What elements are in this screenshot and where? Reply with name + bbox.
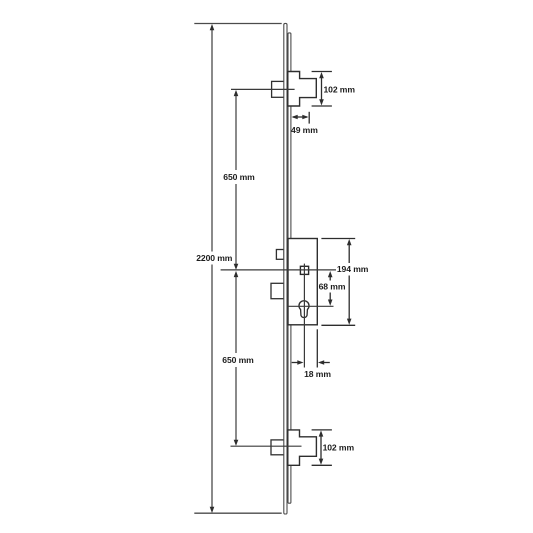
dimension 68 mm line bbox=[329, 276, 331, 281]
dimension 18 mm left arrow bbox=[292, 362, 301, 364]
dimension 102 mm top ticks bbox=[312, 71, 332, 73]
dimension 49 mm tick bbox=[308, 112, 310, 124]
svg-text:102 mm: 102 mm bbox=[323, 442, 355, 452]
dimension 102 mm bottom ticks bbox=[312, 429, 332, 431]
svg-text:68 mm: 68 mm bbox=[319, 282, 346, 292]
bottom extension line bbox=[194, 512, 281, 514]
main center line bbox=[221, 269, 336, 271]
top latch body (mount + bolt union) bbox=[288, 72, 317, 107]
faceplate front bar bbox=[284, 23, 287, 514]
spindle square bbox=[300, 266, 308, 274]
dimension 102 mm bottom line bbox=[320, 435, 322, 461]
dimension 650 mm lower bottom arrow bbox=[234, 440, 239, 446]
dimension 102 mm bottom arrows bbox=[319, 430, 324, 436]
svg-text:650 mm: 650 mm bbox=[222, 355, 254, 365]
dimension 68 mm arrows bbox=[328, 271, 333, 277]
bottom keeper box bbox=[271, 440, 285, 455]
dimension 18 mm right arrow bbox=[320, 362, 330, 364]
dimension 650 mm upper line bbox=[235, 96, 237, 171]
dimension 650 mm lower top arrow bbox=[234, 271, 239, 277]
faceplate back bar bbox=[288, 33, 291, 503]
top keeper box bbox=[272, 81, 285, 97]
upper small left box bbox=[276, 250, 284, 260]
svg-text:18 mm: 18 mm bbox=[304, 369, 331, 379]
dimension 102 mm top arrows bbox=[319, 72, 324, 78]
svg-text:194 mm: 194 mm bbox=[337, 264, 369, 274]
dimension 194 mm line bbox=[348, 244, 350, 263]
bottom latch body (mount + bolt union) bbox=[288, 430, 317, 465]
dimension 49 mm arrow bbox=[293, 116, 307, 118]
top latch center line bbox=[231, 88, 295, 90]
euro cylinder profile bbox=[299, 301, 309, 318]
dimension 102 mm top line bbox=[321, 76, 323, 102]
lower big left box bbox=[271, 283, 284, 298]
central lock case bbox=[288, 239, 317, 325]
dimension 2200 mm line lower segment bbox=[211, 265, 213, 509]
dimension 2200 mm top arrow bbox=[210, 24, 215, 30]
cylinder axis vertical line bbox=[303, 264, 305, 368]
dimension 650 mm lower line bbox=[235, 277, 237, 354]
dimension 194 mm ticks bbox=[321, 238, 355, 240]
dimension 2200 mm line upper segment bbox=[211, 29, 213, 252]
dimension 18 mm extension line right bbox=[316, 329, 318, 367]
svg-text:650 mm: 650 mm bbox=[223, 172, 255, 182]
dimension 194 mm arrows bbox=[347, 239, 352, 245]
cylinder center line bbox=[288, 305, 334, 307]
svg-text:49 mm: 49 mm bbox=[291, 125, 318, 135]
svg-text:102 mm: 102 mm bbox=[323, 85, 355, 95]
top extension line bbox=[194, 23, 281, 25]
dimension 2200 mm bottom arrow bbox=[210, 507, 215, 513]
dimension 650 mm upper bottom arrow bbox=[234, 264, 239, 270]
dimension 650 mm upper top arrow bbox=[234, 90, 239, 96]
bottom latch center line bbox=[231, 445, 302, 447]
svg-text:2200 mm: 2200 mm bbox=[196, 253, 233, 263]
